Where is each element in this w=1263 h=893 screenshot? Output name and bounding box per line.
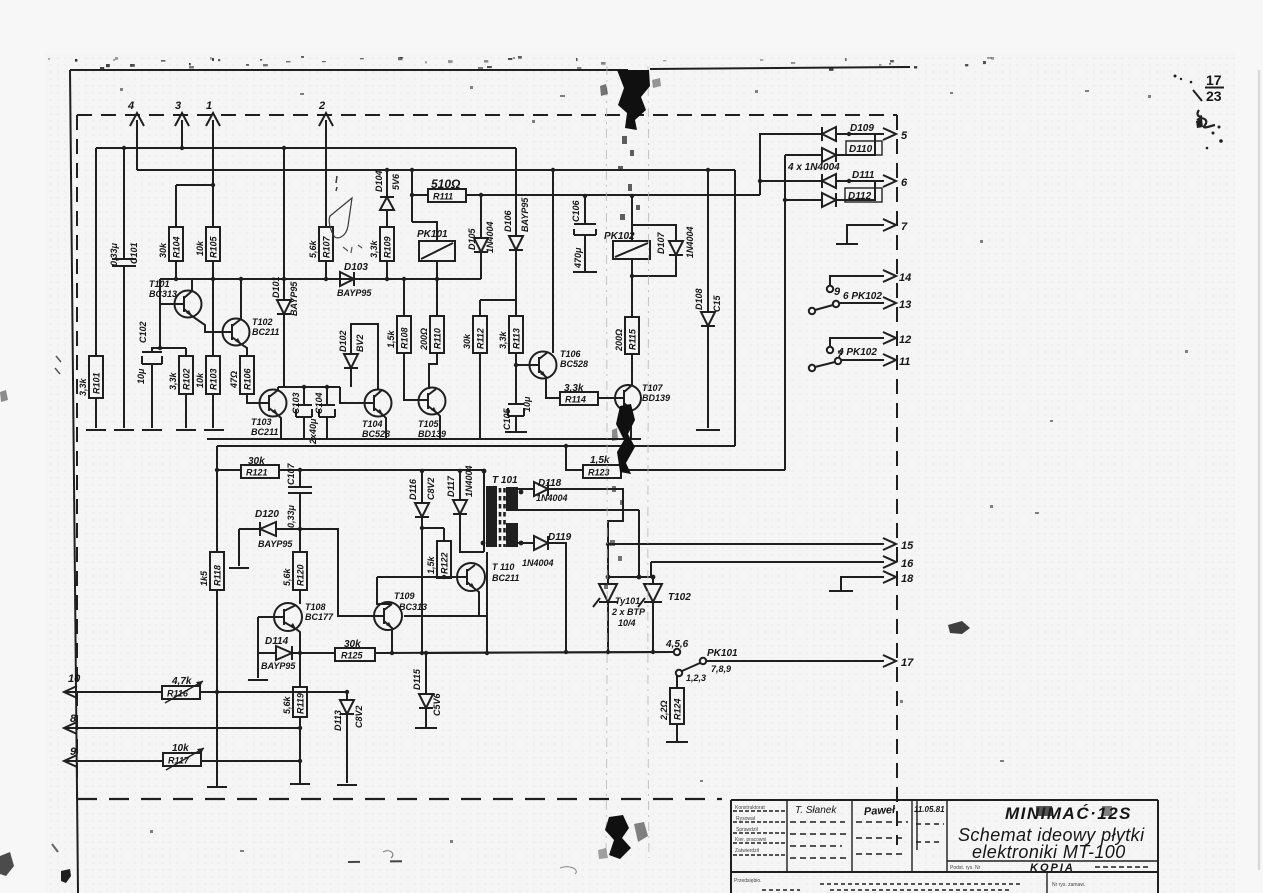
resistor R113 3.3k [498, 316, 523, 404]
wire collector line y=279 [160, 278, 481, 280]
svg-text:R125: R125 [341, 651, 364, 661]
svg-text:BAYP95: BAYP95 [289, 281, 299, 316]
svg-text:10k: 10k [195, 372, 205, 388]
left vertical x=217 [216, 446, 218, 787]
svg-text:C105: C105 [502, 407, 512, 430]
svg-text:R119: R119 [296, 693, 306, 714]
wire to D109 [760, 134, 822, 195]
connector pin 6 [883, 175, 908, 189]
svg-text:15: 15 [901, 540, 914, 552]
svg-text:470μ: 470μ [573, 247, 583, 269]
svg-text:D102: D102 [338, 330, 348, 352]
svg-text:D110: D110 [849, 144, 873, 155]
svg-text:11.05.81: 11.05.81 [914, 805, 945, 814]
resistor R108 1.5k [386, 279, 417, 400]
svg-text:Podst. rys. Nr: Podst. rys. Nr [950, 865, 981, 871]
svg-text:D105: D105 [467, 227, 477, 250]
connector pin 1 (top) [206, 100, 220, 227]
node dots on bus1 [122, 146, 126, 150]
svg-text:23: 23 [1206, 88, 1222, 104]
svg-text:BC211: BC211 [251, 427, 278, 437]
svg-text:BAYP95: BAYP95 [261, 661, 296, 671]
svg-text:BC528: BC528 [560, 359, 588, 369]
thyristor Ty101 [593, 575, 655, 651]
resistor R104 30k [158, 183, 215, 279]
svg-text:2 x BTP: 2 x BTP [611, 607, 646, 617]
svg-text:elektroniki MT-100: elektroniki MT-100 [972, 842, 1126, 862]
svg-text:17: 17 [901, 657, 914, 669]
svg-text:MINIMAĆ·12S: MINIMAĆ·12S [1005, 804, 1132, 823]
diode D101 BAYP95 [271, 148, 299, 387]
diode D120 BAYP95 [229, 509, 302, 568]
svg-text:2,2Ω: 2,2Ω [659, 700, 669, 721]
svg-text:R103: R103 [209, 368, 219, 390]
pencil scribble near R107 [329, 198, 352, 238]
transistor T102 BC211 [192, 279, 279, 356]
svg-text:Zatwierdził: Zatwierdził [735, 848, 760, 854]
svg-text:4: 4 [127, 100, 134, 112]
svg-text:3,3k: 3,3k [498, 330, 508, 349]
svg-text:4 x 1N4004: 4 x 1N4004 [787, 162, 840, 173]
resistor R114 3.3k [560, 383, 615, 405]
capacitor C101 0.33u [109, 148, 139, 428]
switch contact PK102 pin 13 [809, 291, 911, 314]
connector pin 8 [64, 713, 302, 734]
svg-text:D117: D117 [446, 475, 456, 497]
diode D108 C15 [694, 170, 722, 430]
top wire of lower section [217, 445, 735, 447]
svg-text:10μ: 10μ [522, 396, 532, 412]
svg-text:R107: R107 [322, 235, 332, 258]
transistor T109 BC313 [300, 529, 427, 655]
svg-text:5: 5 [901, 130, 908, 142]
svg-text:T102: T102 [252, 317, 273, 327]
relay PK102 [604, 196, 676, 276]
ground bar under R118 column [207, 786, 227, 788]
svg-text:C8V2: C8V2 [426, 477, 436, 500]
switch PK101 (output) [665, 639, 914, 683]
svg-text:D101: D101 [271, 276, 281, 298]
svg-text:T103: T103 [251, 417, 272, 427]
wire bus2 y=170 [137, 169, 735, 171]
svg-text:PK101: PK101 [417, 229, 448, 240]
svg-text:Kier. pracowni: Kier. pracowni [735, 837, 766, 843]
resistor R124 2.2 [659, 676, 688, 742]
transistor T104 BC528 [340, 387, 392, 439]
svg-text:R116: R116 [167, 689, 189, 699]
short vertical near border [916, 801, 918, 850]
svg-text:1: 1 [206, 100, 212, 112]
switch contact PK102 pin 11 [809, 347, 911, 371]
diode D106 BAYP95 [480, 148, 530, 316]
svg-text:17: 17 [1206, 72, 1222, 88]
svg-text:R121: R121 [246, 468, 268, 478]
svg-text:T 110: T 110 [492, 562, 514, 572]
svg-text:1N4004: 1N4004 [522, 558, 554, 568]
svg-text:KOPIA: KOPIA [1030, 862, 1075, 874]
connector pin 3 (top) [175, 100, 189, 148]
resistor R109 3.3k [369, 227, 394, 279]
diode D103 BAYP95 [333, 262, 387, 298]
right long verticals [734, 170, 736, 446]
resistor R123 1.5k [564, 444, 785, 478]
node dots on bus2 [385, 168, 389, 172]
svg-text:T108: T108 [305, 602, 326, 612]
resistor R122 1.5k [420, 526, 451, 579]
connector pin 9 [64, 746, 302, 767]
top crease blob [617, 70, 650, 130]
svg-text:3,3k: 3,3k [168, 371, 178, 390]
diode D114 BAYP95 [248, 636, 335, 680]
resistor R103 10k [195, 356, 220, 428]
title text [947, 804, 1158, 874]
connector pin 14 [827, 270, 911, 298]
svg-text:BD139: BD139 [642, 393, 670, 403]
svg-text:R124: R124 [673, 698, 683, 720]
svg-text:5V6: 5V6 [391, 173, 401, 190]
transformer T101 [481, 469, 534, 552]
svg-text:13: 13 [899, 299, 911, 311]
svg-text:R111: R111 [433, 192, 453, 202]
svg-text:C102: C102 [138, 321, 148, 343]
svg-text:R106: R106 [243, 367, 253, 390]
svg-text:1N4004: 1N4004 [485, 221, 495, 253]
svg-text:C101: C101 [129, 242, 139, 264]
svg-text:Sprawdził: Sprawdził [736, 827, 759, 833]
svg-text:R101: R101 [92, 372, 102, 394]
svg-text:R112: R112 [476, 328, 486, 349]
svg-text:D115: D115 [412, 668, 422, 690]
transistor T110 BC211 [377, 562, 519, 616]
zener D102 BV2 [338, 324, 378, 390]
transistor T107 BD139 [615, 383, 670, 440]
svg-text:3,3k: 3,3k [369, 239, 379, 258]
dark blob right middle [948, 621, 970, 634]
wire 4,5,6 node [426, 652, 674, 653]
svg-text:BAYP95: BAYP95 [520, 197, 530, 232]
transistor T103 BC211 [251, 387, 287, 439]
capacitor C103 [291, 387, 312, 439]
svg-text:Rysował: Rysował [736, 816, 756, 822]
svg-text:R115: R115 [628, 328, 638, 350]
svg-text:Przedsiębio.: Przedsiębio. [734, 878, 762, 884]
capacitor C106 470u [571, 196, 597, 272]
top page edge line [70, 67, 910, 70]
svg-text:R104: R104 [172, 236, 182, 258]
svg-text:6: 6 [901, 177, 908, 189]
ground bar under R101 [86, 429, 106, 431]
svg-text:11: 11 [899, 356, 910, 368]
capacitor C107 0.33u [286, 462, 312, 530]
connector pin 12 [827, 332, 911, 361]
svg-text:Ty101: Ty101 [615, 596, 640, 606]
resistor R125 30k [335, 639, 674, 661]
transistor T106 BC528 [516, 170, 588, 398]
ground rail of top section [207, 438, 641, 440]
svg-text:5,6k: 5,6k [282, 695, 292, 714]
svg-text:10k: 10k [195, 240, 205, 256]
zener D113 C8V2 [333, 690, 364, 785]
wire to D111 [760, 180, 822, 182]
svg-text:D120: D120 [255, 509, 279, 520]
svg-text:R102: R102 [182, 368, 192, 390]
svg-text:R109: R109 [383, 236, 393, 258]
resistor R111 510 [410, 177, 760, 202]
svg-text:16: 16 [901, 558, 914, 570]
svg-text:D107: D107 [656, 231, 666, 254]
bottom row [1046, 872, 1048, 893]
svg-text:D113: D113 [333, 710, 343, 731]
svg-text:R123: R123 [588, 468, 610, 478]
diode D109 [822, 123, 884, 141]
diode D111 [822, 170, 884, 188]
resistor R105 10k [195, 227, 220, 356]
connector pin 10 [64, 673, 347, 698]
diode D118 1N4004 [534, 478, 623, 577]
resistor R118 1k5 [199, 552, 224, 590]
T109/T110 emitter wire [404, 552, 487, 653]
svg-text:47Ω: 47Ω [229, 371, 239, 389]
connector pin 2 (top) [318, 100, 333, 227]
svg-text:C107: C107 [286, 462, 296, 485]
zener D104 5V6 [374, 170, 401, 227]
zener D115 C5V6 [412, 651, 442, 728]
connector pin 15 wire [608, 538, 914, 552]
svg-text:1,5k: 1,5k [386, 329, 396, 348]
svg-text:1N4004: 1N4004 [464, 465, 474, 497]
svg-text:1k5: 1k5 [199, 570, 209, 586]
svg-text:D112: D112 [848, 191, 872, 202]
svg-text:BC313: BC313 [149, 289, 177, 299]
resistor R107 5.6k [308, 227, 333, 279]
resistor R101 3.3k [78, 356, 103, 398]
connector pin 5 [883, 128, 908, 142]
diode D119 1N4004 [522, 532, 572, 654]
wire node T103 collector / caps [284, 386, 340, 388]
zener D116 C8V2 [408, 469, 436, 655]
svg-text:T107: T107 [642, 383, 664, 393]
diode D105 1N4004 [467, 195, 495, 279]
dashed schematic border [77, 115, 897, 845]
crease speckles y 480-620 [604, 486, 624, 589]
transistor T101 BC313 [149, 279, 202, 348]
svg-text:BAYP95: BAYP95 [337, 288, 372, 298]
svg-text:Nr rys. zamaw.: Nr rys. zamaw. [1052, 882, 1085, 888]
diode D107 1N4004 [656, 226, 695, 258]
diode D112 [783, 181, 882, 207]
connector pin 16 wire [651, 556, 914, 577]
thyristor T102 [638, 577, 691, 651]
svg-text:14: 14 [899, 272, 911, 284]
ground bar under C102 [142, 429, 162, 431]
svg-text:R108: R108 [400, 327, 410, 349]
svg-text:BC211: BC211 [252, 327, 279, 337]
svg-text:30k: 30k [158, 242, 168, 258]
svg-text:6 PK102: 6 PK102 [843, 291, 882, 302]
wire left column x=96 [95, 148, 97, 428]
svg-text:T105: T105 [418, 419, 440, 429]
left page edge line [70, 70, 78, 893]
connector pin 4 (top) [127, 100, 144, 170]
svg-text:C8V2: C8V2 [354, 705, 364, 728]
wire bus1 y=148 [96, 147, 516, 149]
svg-text:D108: D108 [694, 288, 704, 310]
svg-text:BAYP95: BAYP95 [258, 539, 293, 549]
svg-text:1,2,3: 1,2,3 [686, 673, 706, 683]
svg-text:BD139: BD139 [418, 429, 446, 439]
svg-text:5,6k: 5,6k [308, 239, 318, 258]
svg-text:7,8,9: 7,8,9 [711, 664, 731, 674]
svg-text:D119: D119 [548, 532, 572, 543]
svg-text:C104: C104 [314, 392, 324, 414]
svg-text:10: 10 [68, 673, 81, 685]
svg-text:R122: R122 [440, 552, 450, 574]
svg-text:R120: R120 [296, 564, 306, 586]
svg-text:T104: T104 [362, 419, 383, 429]
svg-text:R113: R113 [512, 328, 522, 349]
capacitor C102 10u [136, 321, 162, 428]
svg-text:D106: D106 [503, 209, 513, 232]
svg-text:2x40μ: 2x40μ [308, 418, 318, 445]
resistor R120 5.6k [282, 529, 307, 604]
svg-text:2: 2 [318, 100, 325, 112]
svg-text:R117: R117 [168, 756, 190, 766]
diode D117 1N4004 [446, 465, 484, 552]
svg-text:3: 3 [175, 100, 181, 112]
transistor T108 BC177 [258, 602, 334, 653]
bottom-left stray marks [348, 861, 420, 862]
svg-text:D116: D116 [408, 478, 418, 500]
resistor R110 200 [419, 279, 444, 389]
svg-text:0,33μ: 0,33μ [286, 504, 296, 528]
svg-text:R114: R114 [565, 395, 586, 405]
svg-text:4 PK102: 4 PK102 [837, 347, 877, 358]
svg-text:T102: T102 [668, 592, 691, 603]
svg-text:PK101: PK101 [707, 648, 738, 659]
resistor R119 5.6k [282, 653, 310, 784]
svg-text:T106: T106 [560, 349, 582, 359]
svg-text:1N4004: 1N4004 [685, 226, 695, 258]
resistor R102 3.3k [158, 346, 193, 428]
svg-text:T. Słanek: T. Słanek [795, 805, 837, 816]
diode D110 [785, 134, 882, 162]
transformer centre tap wire [521, 510, 639, 577]
relay PK101 [412, 170, 455, 279]
svg-text:30k: 30k [462, 333, 472, 349]
resistor R112 30k [462, 300, 487, 439]
svg-text:D118: D118 [538, 478, 562, 489]
connector pin 7 with ground [836, 219, 908, 244]
connector pin 18 with ground [829, 571, 914, 591]
mid crease blob [616, 404, 635, 474]
svg-text:5,6k: 5,6k [282, 567, 292, 586]
svg-text:BC211: BC211 [492, 573, 519, 583]
svg-text:Konstruktorat: Konstruktorat [735, 805, 765, 811]
capacitor C105 10u [502, 396, 532, 432]
svg-text:T109: T109 [394, 591, 415, 601]
assorted specks [120, 86, 1188, 852]
svg-text:R110: R110 [433, 328, 443, 349]
capacitor C104 [308, 387, 335, 445]
svg-text:1N4004: 1N4004 [536, 493, 568, 503]
bottom crease blob [605, 815, 631, 859]
svg-text:0,33μ: 0,33μ [109, 242, 119, 266]
transistor T105 BD139 [417, 388, 446, 440]
svg-text:C5V6: C5V6 [432, 692, 442, 716]
svg-text:18: 18 [901, 573, 914, 585]
squiggles top right [1197, 110, 1215, 127]
svg-text:200Ω: 200Ω [614, 329, 624, 352]
resistor R121 30k [217, 456, 484, 478]
crease speckles y 130-270 [618, 136, 640, 220]
svg-text:10μ: 10μ [136, 368, 146, 384]
svg-text:12: 12 [899, 334, 911, 346]
svg-text:T 101: T 101 [492, 475, 518, 486]
svg-text:9: 9 [834, 286, 841, 298]
svg-text:200Ω: 200Ω [419, 328, 429, 351]
svg-text:BC177: BC177 [305, 612, 334, 622]
svg-text:R118: R118 [213, 565, 223, 586]
svg-text:D104: D104 [374, 170, 384, 192]
svg-text:1,5k: 1,5k [426, 555, 436, 574]
svg-text:Paweł: Paweł [864, 804, 897, 818]
resistor R115 200 [614, 259, 639, 386]
svg-text:D103: D103 [344, 262, 368, 273]
svg-text:10/4: 10/4 [618, 618, 636, 628]
svg-text:D109: D109 [850, 123, 874, 134]
svg-text:BV2: BV2 [355, 334, 365, 352]
svg-text:D111: D111 [852, 170, 875, 181]
resistor R117 10k (adjustable) [163, 743, 204, 770]
svg-text:C15: C15 [712, 294, 722, 312]
left margin marks [55, 356, 61, 374]
svg-text:R105: R105 [209, 235, 219, 258]
resistor R116 4.7k (adjustable) [162, 676, 203, 703]
svg-text:3,3k: 3,3k [78, 377, 88, 396]
svg-text:7: 7 [901, 221, 908, 233]
resistor R106 47 [229, 348, 259, 403]
svg-text:C106: C106 [571, 199, 581, 222]
svg-text:C103: C103 [291, 392, 301, 414]
crease fold lines [606, 66, 607, 856]
ground bar under C101 [114, 429, 134, 431]
